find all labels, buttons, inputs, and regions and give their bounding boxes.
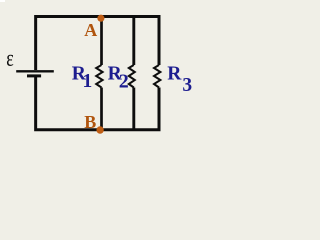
svg-text:2: 2 [119, 70, 129, 92]
battery long plate [16, 70, 54, 72]
battery short plate [27, 74, 41, 77]
node A dot [97, 15, 104, 22]
node B dot [96, 126, 103, 133]
resistor R2 zigzag [129, 65, 135, 88]
svg-text:B: B [84, 112, 96, 132]
svg-text:ε: ε [6, 44, 14, 71]
svg-text:R: R [167, 63, 182, 84]
svg-text:A: A [84, 20, 97, 40]
wire: battery top plate up left side, across top, down right side to R3 [36, 16, 159, 70]
battery (emf source) plates [16, 71, 54, 76]
wire: R2 branch upper [132, 16, 135, 65]
svg-text:1: 1 [83, 71, 93, 92]
wire: R2 branch lower [132, 88, 135, 130]
svg-text:3: 3 [182, 75, 192, 96]
wire: R1 branch upper [100, 16, 103, 65]
wire: R1 branch lower [100, 88, 103, 130]
resistor R3 zigzag [154, 65, 160, 88]
resistor R1 zigzag [96, 65, 102, 88]
corner smudge [0, 0, 5, 2]
wire: battery bottom plate down, across bottom, up right side to R3 bottom [36, 76, 159, 130]
